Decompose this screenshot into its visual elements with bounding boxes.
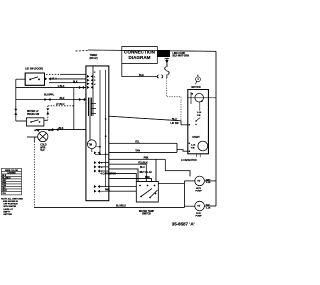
timer box (86, 66, 109, 201)
pin pair on y99.5 (44, 98, 85, 101)
svg-text:PNK: PNK (145, 177, 150, 179)
wire into motor lid-sw terminal (181, 124, 188, 126)
timer bottom pins (94, 151, 100, 193)
wire TAN timer to motor (109, 151, 177, 153)
motor box (188, 90, 209, 154)
svg-text:1-18: 1-18 (206, 182, 211, 184)
wire LT BLU dashed (48, 105, 74, 107)
svg-text:PNK: PNK (105, 190, 110, 192)
wire top main line solid (88, 50, 216, 51)
text layer (1, 49, 211, 226)
motor start contacts (195, 120, 197, 125)
svg-text:2: 2 (94, 72, 95, 74)
wire pump feed vertical (183, 181, 185, 208)
motor run-to-start vertical (199, 102, 201, 111)
wire YEL timer to motor (109, 142, 177, 144)
svg-text:VLV: VLV (40, 150, 45, 152)
svg-text:BLK: BLK (59, 127, 64, 130)
svg-text:SETTING: SETTING (3, 214, 12, 216)
wire y129.4 valve to timer (36, 129, 86, 131)
motor start winding (198, 141, 208, 151)
wire bottom long run (34, 207, 184, 209)
svg-text:BLK: BLK (73, 81, 78, 83)
wire dashed drop x181 (180, 97, 182, 121)
timer pin rows top (87, 75, 93, 89)
pin pair y87.6 (79, 86, 84, 89)
temp switch box (136, 182, 158, 203)
svg-text:1-16: 1-16 (197, 112, 202, 114)
wire BLK from title box to cord connector (122, 64, 157, 77)
motor terminal dots (189, 124, 191, 152)
wire pressure right stub (44, 119, 48, 121)
svg-text:VIO: VIO (2, 188, 6, 190)
wire dashed to motor column (167, 96, 181, 98)
svg-text:BLK: BLK (48, 130, 53, 132)
svg-text:PRESS SW: PRESS SW (27, 114, 40, 116)
svg-text:RCR: RCR (196, 213, 201, 215)
svg-text:BLU: BLU (172, 119, 177, 121)
pump motor 2 (195, 201, 205, 211)
wire lid-sw circuit timer to motor (109, 116, 181, 125)
pin pair on left bus (14, 109, 17, 115)
timer inner verticals right (99, 70, 101, 154)
wire to pump2 (184, 205, 194, 207)
motor run winding (195, 93, 204, 102)
svg-text:LT BLU: LT BLU (56, 103, 65, 106)
svg-text:Y/B: Y/B (191, 148, 195, 150)
svg-text:1 BLK: 1 BLK (58, 85, 65, 88)
svg-text:6: 6 (101, 163, 102, 165)
lid switch contacts (29, 78, 40, 80)
svg-text:4 CAPACITOR: 4 CAPACITOR (101, 172, 117, 175)
svg-text:Y/B: Y/B (197, 115, 201, 117)
svg-text:PNK: PNK (144, 158, 149, 160)
svg-text:WATER TEMP: WATER TEMP (139, 210, 155, 213)
wire bus into pressure switch (16, 120, 27, 122)
svg-text:MOTOR: MOTOR (191, 86, 200, 89)
svg-text:WTR: WTR (196, 188, 201, 190)
svg-text:BLK: BLK (60, 97, 65, 100)
svg-text:WTR: WTR (40, 147, 46, 149)
wire valve left stub + drop (27, 136, 38, 138)
svg-text:BLK-WHT-GRN: BLK-WHT-GRN (173, 56, 190, 58)
wire motor box capacitor stubs (197, 154, 201, 157)
svg-text:A CAPACITOR: A CAPACITOR (181, 159, 197, 162)
svg-text:4: 4 (94, 83, 96, 86)
svg-text:1-16: 1-16 (191, 145, 196, 147)
svg-text:BLU/BLK: BLU/BLK (116, 206, 126, 208)
wire x73.8 vertical (73, 88, 75, 130)
wire lid switch to left bus (16, 78, 25, 80)
wire top main line (76, 50, 89, 53)
wire timer to temp switch y186 (109, 186, 137, 188)
wire PNK2 timer to temp switch (109, 179, 152, 182)
svg-text:(60 HZ): (60 HZ) (89, 57, 97, 60)
pump motor 1 (195, 176, 205, 186)
wire dashed vertical to pressure sw (47, 106, 49, 121)
svg-text:BLK: BLK (139, 74, 144, 77)
svg-text:WITH WATER: WITH WATER (3, 205, 16, 208)
svg-text:WHT CL-18: WHT CL-18 (139, 172, 152, 174)
wires into timer left (46, 73, 60, 75)
wire tap y87.6 (16, 87, 86, 89)
svg-text:PUMP: PUMP (195, 191, 202, 193)
timer motor (87, 140, 96, 149)
svg-text:35-6587 ‘A’: 35-6587 ‘A’ (172, 222, 195, 227)
svg-text:GRY: GRY (206, 179, 211, 181)
pressure switch box (26, 118, 44, 126)
motor protector symbol (196, 77, 201, 82)
svg-text:START: START (192, 136, 200, 139)
svg-text:LEVEL AT: LEVEL AT (3, 208, 13, 211)
wire YEL/BLK timer to temp switch (109, 164, 147, 181)
svg-text:1-18: 1-18 (206, 207, 211, 209)
wire left bus vertical (15, 79, 17, 121)
svg-text:TT: TT (197, 179, 201, 183)
timer cam ladder (89, 98, 92, 117)
pin pair on y129.4 (52, 128, 58, 131)
svg-text:PUMP: PUMP (195, 216, 202, 218)
wire line-cord dashed drop (166, 78, 168, 97)
wire valve drop (33, 137, 35, 142)
connector hooks on BLK wire (157, 75, 163, 78)
connection diagram title box (122, 47, 158, 64)
wire PNK drop into temp switch (155, 159, 157, 181)
wire BLU timer to temp switch (109, 169, 138, 182)
wire into motor start winding (177, 150, 188, 152)
wire WHT timer to temp switch (109, 174, 137, 182)
svg-text:WATER LV: WATER LV (27, 110, 39, 113)
legend table (2, 168, 22, 195)
timer inner vertical x93 (92, 66, 94, 116)
svg-text:VIO: VIO (206, 205, 210, 207)
svg-text:TM: TM (89, 143, 92, 146)
svg-text:COLD: COLD (40, 145, 47, 147)
wire YEL drop to pump1 (165, 159, 190, 176)
black line-cord block (157, 50, 170, 57)
wire lid switch to timer (50, 78, 86, 80)
pin pair on dashed vertical (46, 108, 49, 114)
svg-text:LID SW (DOOR): LID SW (DOOR) (25, 67, 43, 70)
svg-text:TAN: TAN (135, 150, 140, 153)
svg-text:CONNECTION: CONNECTION (124, 49, 156, 54)
wire valve drop dashed (33, 142, 35, 208)
wire PNK timer to temp switch (109, 158, 166, 160)
svg-text:YEL/BLK: YEL/BLK (138, 163, 148, 165)
svg-text:TT: TT (197, 204, 201, 208)
lid switch box (25, 73, 44, 85)
wire BLK lid to timer (49, 82, 86, 84)
svg-text:3: 3 (94, 80, 95, 82)
svg-text:ARE SHOWN IN: ARE SHOWN IN (3, 200, 19, 203)
svg-text:LEGEND: LEGEND (7, 173, 16, 175)
svg-text:DIAGRAM: DIAGRAM (129, 55, 151, 60)
wire tap y99.5 (16, 99, 86, 101)
wire timer to temp switch y191 (109, 190, 137, 192)
svg-text:LINE CORD: LINE CORD (173, 53, 186, 55)
svg-text:A1-A: A1-A (51, 78, 57, 81)
svg-text:BLU/PPL: BLU/PPL (44, 93, 55, 96)
line cord plug symbol (165, 58, 170, 78)
svg-text:LID SW: LID SW (171, 123, 180, 125)
svg-text:1: 1 (94, 76, 95, 78)
svg-text:BLU: BLU (140, 167, 145, 169)
wire lid top into timer (60, 73, 86, 75)
svg-text:YEL: YEL (135, 142, 140, 144)
wire junction x177 (176, 143, 178, 152)
svg-text:SWITCH: SWITCH (142, 214, 151, 216)
svg-text:NOTE: ALL SWITCHES: NOTE: ALL SWITCHES (1, 197, 23, 200)
water valve solenoid (38, 132, 48, 142)
wire temp box to pump1 (158, 183, 184, 185)
svg-text:5: 5 (101, 167, 102, 169)
pin pair lid right (45, 77, 51, 80)
svg-text:WTR: WTR (34, 130, 39, 132)
wire right edge bus (215, 51, 217, 206)
